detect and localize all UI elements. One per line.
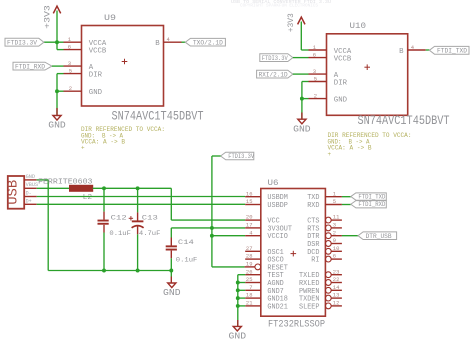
svg-text:DSR: DSR	[307, 241, 320, 249]
wire USB GND down	[37, 180, 49, 271]
pin number 1 (U10)	[313, 44, 317, 51]
svg-text:RXD: RXD	[307, 202, 319, 210]
label RXI/2.1D	[257, 70, 293, 78]
svg-text:GND: GND	[89, 89, 102, 97]
pin number 1 (U6 right)	[333, 190, 337, 197]
label FTDI3.3V (U9)	[5, 38, 44, 46]
U9 pin 3 stub	[64, 65, 82, 67]
U6 pin 1 TXD stub	[325, 196, 342, 198]
svg-text:TEST: TEST	[267, 272, 283, 280]
svg-text:GND: GND	[48, 121, 66, 131]
capacitor C13 (polarized)	[129, 188, 144, 270]
svg-text:27: 27	[246, 245, 253, 252]
pin number 2 (U9)	[69, 85, 72, 92]
svg-text:GND7: GND7	[267, 288, 283, 296]
U9 pin 2 stub	[64, 90, 82, 92]
svg-text:12: 12	[333, 300, 340, 307]
svg-text:VCCIO: VCCIO	[267, 233, 288, 241]
svg-text:TXLED: TXLED	[299, 272, 320, 280]
svg-text:7: 7	[249, 284, 252, 291]
pin number 2 (U10)	[314, 93, 317, 100]
svg-text:22: 22	[333, 276, 340, 283]
wire U6 GND down	[237, 306, 239, 327]
svg-text:23: 23	[333, 268, 340, 275]
svg-text:FTDI_RXD: FTDI_RXD	[15, 63, 45, 70]
svg-text:20: 20	[246, 214, 253, 221]
pin number 2 (U6 right)	[333, 229, 336, 236]
svg-text:U6: U6	[268, 178, 279, 188]
svg-text:GND18: GND18	[267, 296, 288, 304]
power +3V3 (U10)	[286, 13, 305, 32]
U6 pin 25 AGND stub	[245, 282, 261, 284]
pin number 14 (U6 right)	[333, 284, 340, 291]
svg-text:VCCA: A -> B: VCCA: A -> B	[328, 145, 372, 152]
U9 pin names	[89, 40, 160, 97]
pin number 5 (U10)	[314, 76, 317, 83]
U6 pin name TXDEN	[299, 296, 320, 304]
label FTDI_TXD (U6)	[351, 193, 387, 201]
wire U6 TXD out	[342, 196, 351, 198]
svg-text:RXI/2.1D: RXI/2.1D	[259, 71, 288, 78]
svg-text:RXLED: RXLED	[299, 280, 320, 288]
pin number 13 (U6 right)	[333, 292, 340, 299]
svg-text:VCC: VCC	[267, 218, 279, 226]
pin number 15 (U6 left)	[246, 198, 253, 205]
USB pin label GND	[26, 174, 35, 180]
label TXO/2.1D	[185, 38, 225, 46]
svg-text:2: 2	[69, 85, 72, 92]
svg-text:D+: D+	[26, 198, 32, 204]
pin number 10 (U6 right)	[333, 245, 340, 252]
svg-text:11: 11	[333, 214, 340, 221]
svg-text:16: 16	[246, 190, 253, 197]
wire +3V3 to U10 pin 1	[301, 22, 308, 51]
svg-text:18: 18	[246, 292, 253, 299]
svg-text:+: +	[328, 151, 332, 158]
U6 name	[268, 178, 279, 188]
label FTDI3.3V (U10)	[260, 54, 293, 62]
U6 pin name TXLED	[299, 272, 320, 280]
USB text	[6, 180, 22, 205]
svg-text:6: 6	[333, 253, 336, 260]
ground (rail)	[163, 283, 181, 298]
svg-text:GND21: GND21	[267, 303, 288, 311]
U6 pin 23 TXLED stub with bubble	[325, 272, 342, 278]
svg-text:13: 13	[333, 292, 340, 299]
svg-text:3: 3	[313, 68, 316, 75]
C12 name	[111, 214, 127, 222]
svg-text:19: 19	[246, 261, 253, 268]
wire D+ to U6 USBDP	[37, 203, 246, 205]
svg-text:SLEEP: SLEEP	[299, 303, 320, 311]
U6 pin 7 GND7 stub	[245, 289, 261, 291]
U6 pin name AGND	[267, 280, 283, 288]
svg-text:DIR: DIR	[334, 79, 348, 87]
svg-text:5: 5	[69, 68, 72, 75]
U9 name	[104, 13, 116, 23]
pin number 6 (U6 right)	[333, 253, 336, 260]
U6 pin name RI	[311, 257, 319, 265]
wire U10 DIR to GND	[300, 82, 309, 101]
U10 value SN74AVC1T45DBVT	[358, 113, 450, 128]
U6 pin 10 DCD stub with bubble	[325, 248, 342, 254]
ground (U6)	[229, 326, 247, 341]
U10 name	[350, 21, 367, 31]
wire FTDI3.3V to RESET	[212, 266, 245, 268]
svg-text:TXD: TXD	[307, 194, 319, 202]
pin number 16 (U6 left)	[246, 190, 253, 197]
U10 pin 2 stub	[309, 98, 327, 100]
svg-text:0.1uF: 0.1uF	[176, 256, 198, 264]
svg-text:AGND: AGND	[267, 280, 283, 288]
svg-text:+: +	[81, 145, 85, 152]
IC U6 box	[261, 189, 326, 317]
U6 pin 19 RESET stub with bubble	[245, 264, 261, 270]
wire U6 DTR out	[342, 235, 358, 237]
wire GND rail	[48, 269, 173, 273]
U9 pin 6 stub	[64, 49, 82, 51]
U6 pin 2 DTR stub with bubble	[325, 233, 342, 239]
svg-text:25: 25	[246, 276, 253, 283]
U6 pin 18 GND18 stub	[245, 297, 261, 299]
pin number 18 (U6 left)	[246, 292, 253, 299]
U10 pin 1 stub	[309, 49, 327, 51]
pin number 6 (U10)	[313, 52, 316, 59]
svg-text:L2: L2	[83, 194, 93, 202]
svg-text:6: 6	[313, 52, 316, 59]
pin number 11 (U6 right)	[333, 214, 340, 221]
U6 pin name CTS	[307, 218, 319, 226]
pin number 28 (U6 left)	[246, 253, 253, 260]
svg-text:GND: GND	[334, 97, 347, 105]
pin number 20 (U6 left)	[246, 214, 253, 221]
USB pin VBUS stub	[24, 187, 37, 189]
wire 3V3OUT row	[171, 227, 245, 229]
svg-text:PWREN: PWREN	[299, 288, 320, 296]
pin number 4 (U10)	[411, 44, 415, 51]
U6 pin 28 OSCO stub	[245, 258, 261, 260]
U6 pin name SLEEP	[299, 303, 320, 311]
svg-text:+3V3: +3V3	[286, 13, 296, 32]
ground (U9)	[48, 116, 66, 131]
wire +3V3 to U9 pins 1/6	[44, 11, 64, 50]
svg-text:FTDI3.3V: FTDI3.3V	[7, 39, 37, 46]
svg-text:D-: D-	[26, 190, 32, 196]
svg-text:28: 28	[246, 253, 253, 260]
svg-text:3: 3	[333, 222, 336, 229]
U10 pin 3 stub	[309, 73, 327, 75]
svg-text:FT232RLSSOP: FT232RLSSOP	[268, 319, 325, 331]
USB pin D+ stub	[24, 203, 37, 205]
svg-text:VCCB: VCCB	[89, 48, 107, 56]
pin number 4 (U9)	[167, 36, 171, 43]
op-amp U9 box	[82, 26, 164, 107]
wire D- to U6 USBDM	[37, 196, 246, 198]
wire VCCIO row	[212, 235, 245, 237]
USB pin label D+	[26, 198, 32, 204]
pin number 25 (U6 left)	[246, 276, 253, 283]
svg-text:B: B	[399, 48, 403, 56]
pin number 4 (U6 left)	[249, 229, 253, 236]
wire rail GND tap	[170, 271, 172, 284]
U6 pin name 3V3OUT	[267, 225, 292, 233]
U6 pin name GND18	[267, 296, 288, 304]
svg-text:FTDI_TXD: FTDI_TXD	[358, 194, 385, 201]
U10 pin 6 stub	[309, 57, 327, 59]
U6 value FT232RLSSOP	[268, 319, 325, 331]
label FTDI3.3V (U6)	[221, 152, 255, 160]
svg-text:OSC1: OSC1	[267, 249, 283, 257]
wire U6 RXD out	[342, 204, 351, 206]
svg-text:DIR: DIR	[89, 72, 103, 80]
U6 pin name RESET	[267, 264, 288, 272]
pin number 1 (U9)	[68, 36, 72, 43]
svg-text:17: 17	[246, 222, 253, 229]
U6 pin name TXD	[307, 194, 319, 202]
svg-text:TXDEN: TXDEN	[299, 296, 320, 304]
pin number 22 (U6 right)	[333, 276, 340, 283]
svg-text:2: 2	[333, 229, 336, 236]
note DIR referenced (U10)	[328, 132, 412, 158]
U6 pin 15 USBDP stub	[245, 204, 261, 206]
pin number 27 (U6 left)	[246, 245, 253, 252]
L2 value FERRITE0603	[38, 179, 93, 187]
C14 value 0.1uF	[176, 256, 198, 264]
U6 pin name USBDP	[267, 202, 288, 210]
wire U6 TEST/GND bus	[236, 275, 245, 308]
pin number 7 (U6 left)	[249, 284, 252, 291]
svg-text:B: B	[155, 40, 159, 48]
svg-text:TXO/2.1D: TXO/2.1D	[193, 39, 223, 46]
U6 pin 6 RI stub with bubble	[325, 256, 342, 262]
wire U9 B out	[182, 41, 186, 43]
C14 name	[178, 239, 194, 247]
svg-text:VCCB: VCCB	[334, 55, 352, 63]
svg-text:RI: RI	[311, 257, 319, 265]
U6 pin name USBDM	[267, 194, 288, 202]
U6 pin 21 GND21 stub	[245, 305, 261, 307]
pin number 19 (U6 left)	[246, 261, 253, 268]
U6 pin 3 RTS stub with bubble	[325, 225, 342, 231]
U6 pin name DCD	[307, 249, 319, 257]
U6 pin 14 PWREN stub with bubble	[325, 287, 342, 293]
pin number 23 (U6 right)	[333, 268, 340, 275]
svg-text:C13: C13	[142, 214, 158, 222]
U6 pin 5 RXD stub	[325, 204, 342, 206]
wire U9 DIR to GND	[55, 74, 63, 94]
USB pin label D-	[26, 190, 32, 196]
svg-text:5: 5	[333, 198, 336, 205]
wire FTDI3.3V vertical	[210, 156, 221, 267]
label FTDI_RXD (U6)	[351, 201, 387, 209]
wire U10 GND down	[301, 99, 303, 120]
svg-text:RTS: RTS	[307, 225, 319, 233]
U6 origin cross	[291, 251, 297, 257]
U6 pin name RXLED	[299, 280, 320, 288]
svg-text:C14: C14	[178, 239, 194, 247]
U6 pin 27 OSC1 stub	[245, 250, 261, 252]
U9 origin cross	[122, 59, 128, 65]
svg-text:USB: USB	[6, 180, 22, 205]
svg-text:FTDI3.3V: FTDI3.3V	[262, 55, 288, 62]
pin number 3 (U9)	[68, 60, 71, 67]
U6 pin name OSC1	[267, 249, 283, 257]
svg-text:3: 3	[68, 60, 71, 67]
U6 pin name GND7	[267, 288, 283, 296]
svg-text:GND: GND	[229, 332, 247, 342]
ground (U10)	[293, 119, 311, 134]
pin number 3 (U6 right)	[333, 222, 336, 229]
U6 pin name DTR	[307, 233, 320, 241]
svg-text:FERRITE0603: FERRITE0603	[38, 179, 93, 187]
U9 value SN74AVC1T45DBVT	[112, 108, 204, 123]
U6 pin 11 CTS stub with bubble	[325, 217, 342, 223]
pin number 21 (U6 left)	[246, 300, 253, 307]
U6 pin 22 RXLED stub with bubble	[325, 280, 342, 286]
U6 pin name RTS	[307, 225, 319, 233]
U6 pin 17 3V3OUT stub	[245, 227, 261, 229]
note DIR referenced (U9)	[81, 126, 165, 151]
wire VBUS corner to VCC	[171, 188, 245, 220]
U9 pin 5 stub	[64, 73, 82, 75]
label FTDI_RXD (U9)	[13, 62, 52, 70]
svg-text:GND: GND	[26, 174, 35, 180]
U6 pin 13 TXDEN stub with bubble	[325, 295, 342, 301]
pin number 3 (U10)	[313, 68, 316, 75]
power +3V3 (U9)	[43, 5, 61, 29]
svg-text:OSCO: OSCO	[267, 257, 283, 265]
op-amp U10 box	[327, 34, 408, 116]
pin number 5 (U6 right)	[333, 198, 336, 205]
wire VBUS rail	[93, 186, 172, 190]
svg-text:COPYRIGHT SPARKFUN ELECTRONICS: COPYRIGHT SPARKFUN ELECTRONICS	[240, 5, 319, 9]
svg-text:VBUS: VBUS	[26, 182, 38, 188]
svg-text:C12: C12	[111, 214, 127, 222]
ferrite bead L2 FERRITE0603	[70, 185, 93, 191]
svg-text:6: 6	[68, 44, 71, 51]
label FTDI_TXD (U10)	[429, 46, 469, 54]
U6 pin 16 USBDM stub	[245, 196, 261, 198]
svg-text:CTS: CTS	[307, 218, 319, 226]
C13 name	[142, 214, 158, 222]
faint clipped title text	[231, 0, 331, 9]
U6 pin name PWREN	[299, 288, 320, 296]
U6 pin name VCC	[267, 218, 279, 226]
U10 pin 5 stub	[309, 81, 327, 83]
svg-text:4.7uF: 4.7uF	[139, 230, 161, 238]
svg-text:VCCA: A -> B: VCCA: A -> B	[81, 139, 125, 146]
svg-text:10: 10	[333, 245, 340, 252]
U10 pin names	[334, 48, 404, 105]
svg-text:2: 2	[314, 93, 317, 100]
svg-text:RESET: RESET	[267, 264, 288, 272]
svg-text:+3V3: +3V3	[43, 5, 53, 29]
U6 pin name DSR	[307, 241, 320, 249]
wire FTDI3.3V to U10 pin 6	[293, 57, 309, 59]
U6 pin name TEST	[267, 272, 283, 280]
svg-text:FTDI_TXD: FTDI_TXD	[437, 48, 467, 55]
svg-text:USBDM: USBDM	[267, 194, 288, 202]
svg-text:FTDI_RXD: FTDI_RXD	[358, 201, 385, 208]
svg-text:0.1uF: 0.1uF	[109, 230, 130, 238]
wire U10 B out	[426, 49, 430, 51]
wire RXI to U10 pin A	[293, 73, 309, 75]
svg-text:SN74AVC1T45DBVT: SN74AVC1T45DBVT	[112, 108, 204, 123]
svg-text:DTR_USB: DTR_USB	[366, 233, 392, 240]
svg-text:GND: GND	[293, 124, 311, 134]
svg-text:15: 15	[246, 198, 253, 205]
svg-text:14: 14	[333, 284, 340, 291]
wire FTDI_RXD to U9 pin A	[52, 65, 64, 67]
capacitor C12	[98, 188, 109, 270]
svg-text:DTR: DTR	[307, 233, 320, 241]
L2 name	[83, 194, 93, 202]
USB pin label VBUS	[26, 182, 38, 188]
svg-text:GND: GND	[163, 288, 181, 298]
U6 pin name RXD	[307, 202, 319, 210]
pin number 9 (U6 right)	[333, 237, 336, 244]
U6 pin 4 VCCIO stub	[245, 235, 261, 237]
capacitor C14	[166, 228, 177, 271]
pin number 12 (U6 right)	[333, 300, 340, 307]
pin number 6 (U9)	[68, 44, 71, 51]
C12 value 0.1uF	[109, 230, 130, 238]
U6 pin 12 SLEEP stub with bubble	[325, 303, 342, 309]
svg-text:5: 5	[314, 76, 317, 83]
U6 pin name GND21	[267, 303, 288, 311]
connector J-USB box	[8, 176, 24, 209]
U9 pin 1 stub	[64, 41, 82, 43]
C13 value 4.7uF	[139, 230, 161, 238]
USB pin GND stub	[24, 179, 37, 181]
U6 pin name OSCO	[267, 257, 283, 265]
svg-text:26: 26	[246, 268, 253, 275]
svg-text:3V3OUT: 3V3OUT	[267, 225, 292, 233]
U6 pin 26 TEST stub	[245, 274, 261, 276]
svg-text:21: 21	[246, 300, 253, 307]
label DTR_USB	[358, 232, 397, 240]
U6 pin 9 DSR stub with bubble	[325, 241, 342, 247]
svg-text:USBDP: USBDP	[267, 202, 288, 210]
pin number 17 (U6 left)	[246, 222, 253, 229]
svg-text:SN74AVC1T45DBVT: SN74AVC1T45DBVT	[358, 113, 450, 128]
U6 pin name VCCIO	[267, 233, 288, 241]
pin number 5 (U9)	[69, 68, 72, 75]
USB pin D- stub	[24, 196, 37, 198]
wire VBUS to ferrite	[37, 187, 70, 189]
svg-text:U9: U9	[104, 13, 116, 23]
svg-text:FTDI3.3V: FTDI3.3V	[228, 153, 254, 160]
U6 pin 20 VCC stub	[245, 219, 261, 221]
wire U9 GND down	[56, 91, 58, 115]
svg-text:9: 9	[333, 237, 336, 244]
U9 pin 4 stub	[164, 41, 182, 43]
svg-text:DCD: DCD	[307, 249, 319, 257]
U10 pin 4 stub	[408, 49, 426, 51]
svg-text:U10: U10	[350, 21, 367, 31]
U10 origin cross	[364, 64, 370, 70]
pin number 26 (U6 left)	[246, 268, 253, 275]
